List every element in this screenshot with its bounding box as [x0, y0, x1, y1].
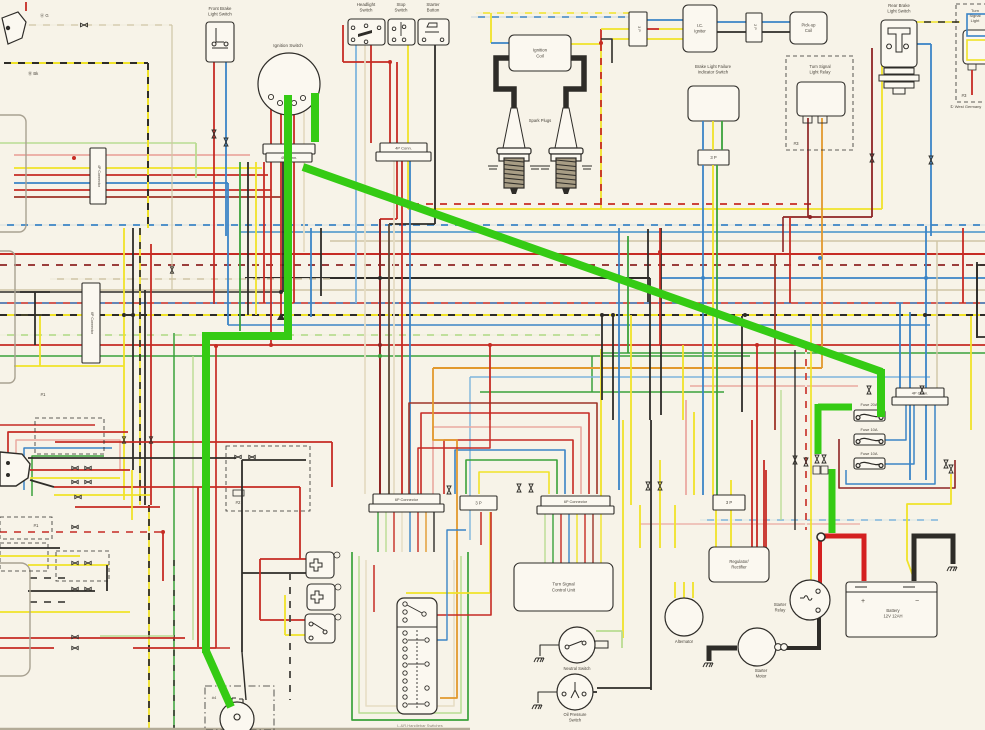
wire cream vertical x394 low [393, 161, 395, 494]
svg-text:#4: #4 [212, 695, 217, 700]
wire black vertical x651 [650, 420, 652, 688]
wire pale-green horizontal y636 [100, 635, 174, 637]
component tail lamp rounded box [0, 563, 30, 676]
wire black horizontal y224 [389, 223, 435, 225]
wire vertical x410 below 6P [409, 512, 411, 552]
connector symbol left row i [72, 587, 78, 590]
wire yellow vertical x132 low [131, 470, 133, 520]
wire yellow vertical x256 [255, 162, 257, 315]
svg-text:① West Germany: ① West Germany [950, 104, 981, 109]
wire yellow vertical x811 [810, 316, 812, 585]
dashed box lower-left 3 [56, 551, 109, 581]
wire yellow top horizontal y13 [476, 12, 629, 14]
label alternator [675, 639, 694, 644]
wire black oil switch right [593, 691, 597, 693]
wire red bracket handlebar [373, 565, 375, 612]
dashed box lower-left 2 [0, 543, 48, 571]
component alternator [665, 598, 703, 636]
wire yellow vertical x694 [693, 412, 695, 495]
wire yellow horizontal y478 [30, 477, 120, 479]
label neutral switch [564, 666, 592, 671]
wire yellow near battery [907, 474, 951, 579]
wire black tie y315 [20, 314, 50, 316]
svg-text:4P Connector: 4P Connector [97, 165, 101, 188]
component IC igniter [683, 5, 717, 52]
ground starter motor [703, 663, 713, 667]
svg-text:Turn Signal: Turn Signal [552, 582, 574, 587]
highlight green long diagonal [303, 167, 882, 372]
wire green vertical x717 mid [716, 165, 718, 228]
wire red vertical right lamp [971, 70, 973, 95]
wire red path to handlebar [418, 420, 490, 494]
fuse 10A second element [856, 462, 883, 467]
junction black x133 y315 [131, 313, 135, 317]
junction red y345 x757 [755, 343, 759, 347]
wire thick black starter motor to ground [709, 648, 737, 661]
wire blue vertical x619 [618, 228, 620, 490]
label fuse 10A first [860, 427, 877, 432]
wire yellow horizontal y565 [28, 564, 109, 566]
highlight green vertical x832 [829, 469, 836, 533]
junction red y345 x490 [488, 343, 492, 347]
wire red vertical x757 [756, 345, 758, 547]
oil pressure switch glyph [562, 682, 586, 698]
svg-text:6P Connector: 6P Connector [564, 500, 588, 504]
wire blue horizontal igniter-left [647, 19, 683, 21]
connector symbol left of fuses 1 [815, 455, 819, 463]
handlebar switch internals [397, 602, 437, 710]
wire yellow vertical x408 [407, 45, 409, 209]
component turn signal relay dashed enclosure [786, 56, 853, 150]
svg-text:Brake Light Failure: Brake Light Failure [695, 64, 732, 69]
wire bracket #c62b24 y413 [421, 413, 589, 494]
turn signal light right terminals [968, 64, 976, 70]
junction yellow x124 y315 [122, 313, 126, 317]
wire green bracket left group [32, 456, 104, 496]
wire red vertical x963 [962, 228, 964, 303]
connector 6P bottom-center [541, 496, 610, 507]
wire black dashed into tail lamp b [30, 601, 68, 603]
svg-text:Light Switch: Light Switch [208, 12, 232, 17]
wire red dashed vertical x806 [805, 345, 807, 530]
stop switch contacts [392, 22, 406, 42]
wire yellow vertical x713 mid [712, 165, 714, 228]
wire tan vertical x937 [936, 241, 938, 388]
connector 3P vertical top [629, 12, 647, 46]
component pick-up coil [790, 12, 827, 44]
connector symbol x124 [122, 437, 125, 443]
component brake light failure switch [688, 86, 739, 121]
label #1 lower [34, 523, 39, 528]
wire green vertical x717 upper [721, 121, 723, 150]
wire blue horizontal rear-brake [915, 43, 931, 45]
wire pale-green vertical x193 [192, 356, 194, 640]
wire blue vertical x703 upper [702, 121, 704, 150]
connector 6P vertical left [82, 283, 100, 363]
wire yellow-black dashed vertical x149 low [148, 505, 150, 728]
wire yellow horizontal coil-right [570, 43, 601, 45]
wire yellow horizontal y593 [406, 592, 490, 594]
wire dark-red loop below fuses [839, 439, 955, 488]
svg-text:Relay: Relay [775, 607, 787, 612]
wire green vertical x628 [627, 236, 629, 353]
wire red dashed horizontal y204 [398, 203, 815, 205]
label starter relay [774, 602, 787, 612]
wire vertical x561 to control unit [560, 512, 562, 563]
wire light-blue vertical x470 [469, 377, 471, 540]
connector symbol left row e [75, 495, 81, 498]
wire red vertical x397 [396, 62, 398, 219]
wire yellow vertical x631 [630, 315, 632, 505]
svg-text:Starter: Starter [426, 2, 440, 7]
junction triangle black x281 [277, 313, 285, 320]
connector 3P brake failure [698, 150, 729, 165]
wire light-green bracket handlebar [359, 556, 461, 713]
wire black horizontal y458 [28, 457, 236, 459]
wire bracket #3aa23a y460 [466, 460, 557, 494]
connector 4P vertical left [90, 148, 106, 204]
wire red horizontal y648 left [0, 647, 54, 649]
wire pink horizontal y524 [640, 523, 860, 525]
junction red x271 y345 [269, 343, 273, 347]
component starter relay [790, 580, 830, 620]
dashed box #1 upper [35, 418, 104, 454]
wire blue vertical x931 [930, 44, 932, 236]
wire tan horizontal y240 [330, 240, 985, 242]
front brake switch internal contacts [212, 28, 228, 48]
svg-text:Fuse 10A: Fuse 10A [860, 427, 877, 432]
wire red vertical x601 up [600, 29, 602, 44]
connector 4P Conn right [896, 388, 944, 398]
wire red vertical x764 [763, 460, 765, 547]
wire yellow top-right y22 [882, 21, 960, 23]
wire black horizontal y278 [245, 277, 650, 279]
svg-text:12V 12AH: 12V 12AH [883, 613, 902, 618]
connector symbol left of fuses 2 [822, 455, 826, 463]
wire blue vertical x703 [702, 228, 704, 495]
wire blue vertical x900 [899, 303, 901, 388]
label ignition switch [273, 43, 303, 48]
wire red horizontal y620 to connector [260, 619, 305, 621]
wire vertical x569 to control unit [568, 512, 570, 563]
junction black x281 [279, 290, 283, 294]
wire red vertical x752 [751, 420, 753, 548]
connector symbol x648 [646, 482, 650, 490]
component stop switch [388, 19, 415, 45]
svg-text:2 P: 2 P [753, 24, 757, 30]
highlight green vertical x881 [877, 369, 885, 417]
label fuse 20A [860, 402, 877, 407]
wire black vertical x107 [106, 565, 108, 591]
wire red vertical x371 [370, 45, 372, 143]
wire red horizontal y217 [783, 216, 872, 218]
wire cream vertical x365 [364, 45, 366, 494]
wire red vertical front-brake x214 [213, 54, 215, 304]
component starter button [418, 19, 449, 45]
ignition switch terminal 1 [268, 94, 273, 99]
connector symbol x922 [920, 386, 924, 394]
svg-text:Rear Brake: Rear Brake [888, 3, 910, 8]
connector 4P Conn right lower [892, 397, 948, 405]
wire red vertical x872 rear-brake [871, 48, 873, 217]
label #3 right [962, 93, 967, 98]
svg-text:−: − [915, 598, 919, 605]
wire blue vertical x926 [925, 226, 927, 480]
wire blue loop page edge [967, 14, 985, 36]
junction black lower-left 2 [6, 473, 10, 477]
rear brake switch adjuster stack [879, 68, 919, 94]
wire yellow vertical x713 upper [712, 121, 714, 150]
component headlight bulb [220, 702, 254, 730]
wire cream vertical x304 [303, 101, 305, 252]
connector symbol left row l [72, 646, 78, 649]
wire vertical x386 below 6P [385, 512, 387, 552]
wire yellow vertical x716 [715, 510, 717, 547]
connector symbol x795 [793, 456, 797, 464]
label spark plugs [529, 118, 552, 123]
component fuse 20A [854, 410, 885, 421]
wire vertical x426 below 6P [425, 512, 427, 552]
wire black diagonal lowleft [30, 480, 54, 487]
wire black loop page edge right [977, 265, 985, 337]
wire blue vertical x410 low [409, 161, 411, 494]
dashed box #2 inner rect [233, 490, 244, 496]
wire green vertical x717 [716, 228, 718, 495]
wire black vertical x648 [647, 229, 649, 302]
connector symbol left row h [85, 561, 91, 564]
svg-text:Fuse 20A: Fuse 20A [860, 402, 877, 407]
dashed box lower-left 1 [0, 517, 52, 539]
svg-text:Neutral Switch: Neutral Switch [564, 666, 592, 671]
wire orange horizontal y368 [433, 367, 822, 369]
component battery [846, 582, 937, 637]
wire yellow-black vertical x140 [139, 228, 141, 505]
svg-text:Stop: Stop [396, 2, 406, 7]
wire pale-green horizontal y631 [596, 630, 622, 632]
wire brown vertical x389 low [388, 224, 390, 494]
label fuse 10A second [860, 451, 877, 456]
junction black x745 [743, 313, 747, 317]
wire vertical x402 below 6P [401, 512, 403, 552]
wire neutral switch to ground [540, 645, 559, 656]
wire red vertical x808 relay [807, 118, 809, 217]
component starter motor [738, 628, 776, 666]
wire yellow loop page edge [967, 40, 985, 60]
wire vertical x545 to control unit [544, 512, 546, 563]
turn signal relay terminal 2 [818, 116, 827, 123]
label front brake light switch [208, 6, 232, 17]
wire red vertical x294 [293, 106, 295, 303]
svg-text:Turn Signal: Turn Signal [809, 64, 830, 69]
wire black diagonal to headlight [242, 652, 246, 700]
connector 2P vertical [746, 13, 762, 42]
svg-text:Coil: Coil [805, 28, 812, 33]
wire blue vertical x910 [909, 312, 911, 480]
wire red horizontal y470 [30, 469, 130, 471]
highlight green fuse vertical x818 [815, 404, 822, 454]
wire red vertical x300 [299, 487, 301, 559]
wire black vertical x435 [434, 45, 436, 224]
component turn signal light relay [797, 82, 845, 116]
wire yellow horizontal y209 [408, 208, 882, 210]
wire yellow horizontal y29 left [601, 28, 629, 30]
wire orange vertical x822 relay [821, 118, 823, 368]
wire yellow vertical x675 up [674, 505, 676, 548]
wire red stub y648 [216, 647, 230, 649]
label #1 upper [41, 392, 46, 397]
wire thick red junction to starter relay [818, 540, 822, 588]
wire black vertical x35 [34, 292, 36, 345]
wire black vertical x661 [660, 228, 662, 415]
wire thick black coil left leg [496, 58, 514, 110]
wire yellow vertical x713 [712, 228, 714, 495]
wire red vertical x783 [782, 217, 784, 252]
highlight green diagonal to headlight [206, 651, 231, 707]
connector symbol gray mid [170, 267, 173, 273]
dash-dot box #4 headlight [205, 686, 274, 730]
wire bracket #3b84c6 y450 [455, 450, 565, 494]
wire pink horizontal y386 [690, 385, 858, 387]
connector symbol left row a [72, 466, 78, 469]
wire yellow horizontal y168 [14, 167, 262, 169]
wire black horizontal y460 right [242, 459, 306, 461]
wire vertical x394 below 6P [393, 512, 395, 552]
wire blue horizontal y183 [14, 182, 228, 184]
wire pink bracket left group [16, 440, 120, 484]
connector symbol left row j [85, 587, 91, 590]
connector symbol x519 [517, 484, 521, 492]
label starter motor [755, 668, 768, 678]
connector symbol left row d [85, 480, 91, 483]
wire red horizontal y559 [260, 558, 306, 560]
svg-text:3 P: 3 P [710, 155, 716, 160]
ground battery [947, 567, 957, 571]
wire gray dashed top-left [8, 24, 172, 26]
wire pink horizontal y155 [14, 154, 250, 156]
component ignition switch [258, 53, 320, 115]
wire yellow vertical x601 low [600, 349, 602, 496]
connector symbol left row b [85, 466, 91, 469]
svg-text:#2: #2 [236, 500, 241, 505]
wire salmon vertical x686 [685, 400, 687, 495]
label oil pressure switch [563, 712, 587, 722]
neutral switch resistor symbol [595, 641, 608, 648]
svg-text:Oil Pressure: Oil Pressure [563, 712, 587, 717]
wire blue vertical front-brake x226 [225, 54, 227, 236]
wire blue from handlebar [437, 530, 466, 640]
ignition switch terminal 4 [300, 95, 305, 100]
wire green horizontal y356 [0, 355, 750, 357]
connector symbol x449 [447, 486, 451, 494]
label starter button [426, 2, 440, 13]
component handlebar switch block [397, 598, 437, 714]
wire red vertical x332 [331, 442, 333, 487]
wire red vertical x163 [162, 532, 164, 581]
wire blue horizontal y278 right [660, 277, 985, 279]
wire pale-green vertical x781 [780, 390, 782, 520]
connector symbol left row g [72, 561, 78, 564]
wire red vertical x660 [659, 228, 661, 345]
wire black vertical x613 [612, 315, 614, 420]
connector symbol x869 mid [867, 386, 871, 394]
wire bracket #9e3528 y403 [409, 403, 597, 494]
wire yellow alternator-2 [683, 582, 685, 598]
wire black horizontal oil-switch [597, 687, 651, 689]
wire gray vertical x172 [171, 25, 173, 290]
label battery minus [915, 598, 919, 605]
wire yellow horizontal y556 [0, 555, 80, 557]
wire blue vertical x228 [227, 183, 229, 325]
wire maroon vertical x380 low [379, 219, 381, 494]
junction red x660 y252 [658, 250, 662, 254]
wire black vertical x248 [247, 162, 249, 315]
wire black vertical x742 [741, 316, 743, 412]
headlight bulb terminals [232, 698, 243, 720]
wire yellow horizontal y39 igniter [612, 38, 683, 40]
ground oil pressure switch [532, 705, 542, 709]
svg-text:Igniter: Igniter [694, 29, 706, 34]
wire black horizontal y591 [28, 590, 95, 592]
wire black vertical x133 [132, 228, 134, 470]
svg-text:Fuse 10A: Fuse 10A [860, 451, 877, 456]
svg-text:I.C.: I.C. [697, 23, 704, 28]
component plug connector 2 [307, 584, 341, 610]
svg-text:4P Conn.: 4P Conn. [912, 390, 929, 395]
wire vertical x434 below 6P [433, 512, 435, 552]
label battery plus [861, 598, 865, 605]
highlight green fuse horizontal [818, 404, 852, 411]
svg-text:L.&R.Handlebar Switches: L.&R.Handlebar Switches [397, 723, 443, 728]
wire blue dashed y225 [0, 224, 985, 226]
wire black corner x612 [601, 39, 612, 63]
wire yellow vertical x971 [970, 316, 972, 430]
label G terminal [40, 12, 49, 19]
wire yellow vertical x882 [881, 22, 883, 209]
wire red horizontal y425 left [0, 424, 95, 426]
svg-text:6P Connector: 6P Connector [90, 312, 94, 335]
connector symbol rear brake red [870, 154, 874, 162]
wire red horizontal y487 [54, 486, 300, 488]
junction black x613 [611, 313, 615, 317]
wire green vertical x592b [591, 356, 593, 392]
svg-text:Switch: Switch [569, 717, 582, 722]
connector 6P bottom-left [373, 494, 440, 505]
wire red horizontal y29 right [647, 28, 659, 30]
wire bracket #c62b24 y440 [444, 440, 573, 494]
svg-text:3 P: 3 P [637, 26, 641, 32]
wire yellow-red dashed vertical x601 [600, 44, 602, 209]
wire tan horizontal y290 [0, 289, 985, 291]
label Bk terminal [28, 70, 39, 77]
neutral switch contacts [565, 641, 586, 649]
wire light-blue horizontal y377 [470, 376, 930, 378]
wire red horizontal y648 [133, 647, 216, 649]
component ignition coil [509, 35, 571, 71]
fuse 20A element [856, 414, 883, 419]
wire green horizontal y353 [600, 352, 985, 354]
rear brake switch internal T [887, 28, 910, 52]
wire blue horizontal pickup [762, 21, 790, 23]
wire vertical x593 to control unit [592, 512, 594, 563]
label west germany [950, 104, 981, 109]
wire black-yellow horizontal y63 [4, 62, 148, 64]
wire blue fuse1 to 4P [885, 404, 906, 440]
wire cream bracket handlebar [366, 560, 454, 706]
component spark plug 2 [540, 108, 592, 194]
wire red dashed y532 [0, 531, 163, 533]
component front brake light switch [206, 22, 234, 62]
svg-text:Headlight: Headlight [357, 2, 376, 7]
